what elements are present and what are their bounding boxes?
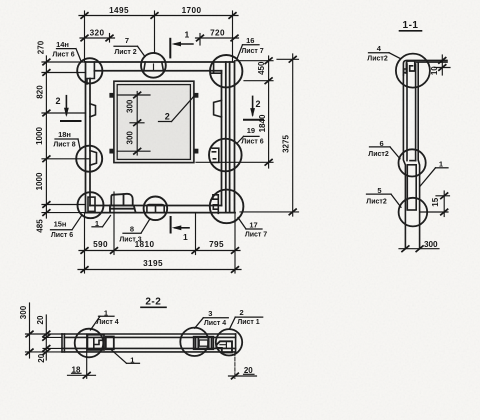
svg-text:485: 485: [36, 219, 45, 233]
s1 dim 15: [420, 191, 450, 217]
embedded tab right wall: [214, 100, 222, 117]
section arrow 1 (top): [170, 39, 193, 58]
s1 top hook detail: [406, 61, 414, 73]
svg-text:Лист2: Лист2: [366, 199, 387, 206]
svg-text:3: 3: [208, 309, 212, 318]
wall right line3: [229, 62, 231, 213]
svg-text:Лист 7: Лист 7: [245, 232, 267, 239]
inner square tab right top: [194, 93, 199, 98]
detail in mid-right circle (bracket): [212, 148, 219, 162]
svg-text:2: 2: [56, 96, 61, 106]
svg-text:2: 2: [256, 99, 261, 109]
s2 left end caps: [61, 334, 63, 352]
svg-text:795: 795: [209, 240, 224, 249]
s2 strip bottom inner: [62, 347, 236, 349]
svg-text:1-1: 1-1: [403, 20, 419, 31]
svg-text:2: 2: [240, 308, 244, 317]
callout circle bottom-middle: [144, 197, 168, 221]
ext line x84.5: [84, 11, 86, 62]
s2 middle splice detail: [194, 337, 214, 350]
wall bottom outer: [86, 212, 236, 214]
detail in top-left circle: [87, 62, 94, 84]
s2 strip top outer: [62, 333, 236, 335]
wall top outer: [86, 61, 235, 63]
inner square tab left bottom: [109, 149, 114, 154]
section arrow 1 (bottom): [171, 217, 189, 233]
callout circle top-middle: [141, 53, 166, 78]
svg-text:10: 10: [430, 66, 439, 75]
svg-text:3275: 3275: [281, 135, 290, 153]
svg-text:Лист 4: Лист 4: [96, 319, 118, 326]
svg-text:20: 20: [37, 353, 46, 362]
s2 right end cap: [235, 334, 237, 352]
s2 callout circle right: [216, 329, 242, 355]
svg-text:8: 8: [130, 224, 134, 233]
dim line 1495/1700: [79, 15, 238, 17]
svg-text:300: 300: [126, 131, 135, 145]
svg-text:15: 15: [431, 197, 440, 206]
callout circle top-left: [77, 58, 102, 83]
svg-text:300: 300: [424, 240, 438, 249]
wall top inner: [94, 70, 221, 72]
wall left inner: [89, 79, 91, 206]
svg-text:Лист 8: Лист 8: [53, 142, 75, 149]
svg-text:2-2: 2-2: [145, 297, 161, 308]
detail in mid-left circle (tab): [90, 151, 97, 166]
ext line x200: [199, 34, 201, 46]
svg-text:15н: 15н: [54, 220, 67, 229]
svg-text:1: 1: [185, 30, 190, 40]
s1 wall outer left: [403, 60, 447, 75]
ext line x154.5: [154, 11, 156, 53]
inner square tab left top: [109, 93, 114, 98]
s2 strip bottom outer: [62, 351, 236, 353]
svg-text:Лист 2: Лист 2: [114, 49, 136, 56]
s2 callout circle left: [75, 329, 104, 358]
s1 callout circle middle: [399, 149, 426, 176]
wall right line1: [221, 71, 223, 206]
dim line 720: [196, 37, 239, 39]
detail in top-right circle: [211, 63, 222, 74]
svg-text:1: 1: [439, 159, 443, 168]
wall left outer: [85, 62, 87, 213]
svg-text:1000: 1000: [35, 127, 44, 145]
detail in bottom-right circle (E bracket): [213, 195, 218, 214]
svg-text:Лист 1: Лист 1: [237, 319, 259, 326]
s2 strip top inner: [64, 336, 235, 338]
svg-text:300: 300: [126, 99, 135, 113]
svg-text:270: 270: [37, 40, 46, 54]
callout circle bottom-right: [210, 190, 244, 224]
svg-text:5: 5: [377, 186, 381, 195]
detail in bottom-left circle: [88, 197, 95, 211]
embedded tab left wall: [90, 104, 96, 117]
svg-text:1495: 1495: [109, 6, 129, 15]
s2 dim 20 right: [234, 352, 236, 378]
hat detail on bottom wall: [110, 194, 136, 213]
svg-text:17: 17: [249, 220, 257, 229]
svg-text:Лист 4: Лист 4: [204, 320, 226, 327]
ext line x109.5: [109, 34, 111, 43]
svg-text:Лист2: Лист2: [368, 151, 389, 158]
svg-text:1840: 1840: [258, 114, 267, 132]
svg-text:Лист 6: Лист 6: [52, 51, 74, 58]
s1 wall outer right: [416, 61, 447, 63]
svg-text:18н: 18н: [58, 130, 71, 139]
s1 callout circle top: [396, 54, 430, 88]
s1 dim 10: [435, 55, 450, 75]
s1 callout circle bottom: [399, 198, 428, 227]
svg-text:720: 720: [210, 29, 225, 38]
svg-text:2: 2: [165, 112, 170, 122]
s1 inner rect lower: [407, 165, 416, 210]
inner square tab right bottom: [194, 149, 199, 154]
s2 dim 18: [86, 334, 88, 378]
wall right outer: [234, 62, 236, 213]
s1 dim 300: [399, 248, 439, 250]
svg-text:16: 16: [246, 36, 254, 45]
wall bottom inner: [90, 205, 222, 207]
s2 detail rect A: [87, 335, 104, 350]
svg-text:Лист 6: Лист 6: [51, 232, 73, 239]
callout circle bottom-left: [78, 192, 104, 218]
svg-text:590: 590: [93, 240, 108, 249]
s2 callout circle middle: [180, 328, 208, 356]
svg-text:3195: 3195: [143, 259, 163, 268]
s2 right flag detail: [216, 341, 232, 352]
svg-text:820: 820: [35, 85, 44, 99]
svg-text:4: 4: [377, 44, 382, 53]
detail in bottom-middle circle (two panes): [147, 205, 164, 212]
svg-text:20: 20: [36, 315, 45, 324]
dim line 320: [80, 37, 115, 39]
wall right line2: [225, 62, 227, 213]
svg-text:Лист 6: Лист 6: [241, 139, 263, 146]
detail in top-middle circle (seam): [144, 62, 145, 71]
inner square outer: [114, 81, 194, 162]
svg-text:1700: 1700: [182, 6, 202, 15]
svg-text:Лист2: Лист2: [367, 56, 388, 63]
callout circle mid-right: [209, 139, 242, 172]
svg-text:300: 300: [19, 305, 28, 319]
svg-text:450: 450: [257, 61, 266, 75]
svg-text:14н: 14н: [56, 40, 69, 49]
s2 detail rect B: [106, 337, 114, 350]
dim 300/300 inside square: line: [117, 92, 150, 156]
s1 wall inner pair: [406, 64, 408, 161]
svg-text:1: 1: [183, 232, 188, 242]
svg-text:320: 320: [90, 29, 105, 38]
svg-text:Лист 3: Лист 3: [119, 236, 141, 243]
callout circle top-right: [210, 55, 242, 87]
ext line x232.5: [232, 11, 234, 62]
callout circle mid-left: [76, 146, 102, 172]
svg-text:7: 7: [125, 36, 129, 45]
s2 left dims: [26, 303, 63, 360]
svg-text:Лист 7: Лист 7: [241, 48, 263, 55]
inner square inner: [117, 85, 190, 160]
svg-text:19: 19: [247, 126, 255, 135]
svg-text:1000: 1000: [35, 172, 44, 190]
